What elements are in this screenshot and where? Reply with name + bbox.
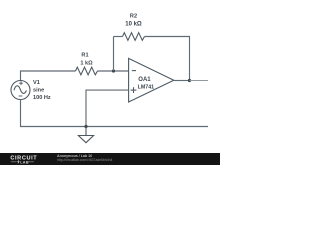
svg-text:http://circuitlab.com/c/637ade: http://circuitlab.com/c/637ade6bh4h4 <box>57 158 113 162</box>
svg-text:OA1: OA1 <box>138 77 151 83</box>
svg-text:R1: R1 <box>81 53 88 59</box>
wire: R2 right lead to right vertical <box>145 37 190 81</box>
node OUT: output junction <box>188 79 191 82</box>
footer bar <box>0 153 220 165</box>
svg-text:100 Hz: 100 Hz <box>33 95 51 101</box>
svg-text:LM741: LM741 <box>138 84 155 90</box>
wire: output extension to the right <box>190 80 209 82</box>
footer logo LAB <box>11 161 17 163</box>
svg-text:sine: sine <box>33 88 44 94</box>
minus polarity mark <box>19 95 23 97</box>
svg-text:LAB: LAB <box>20 161 29 165</box>
op-amp OA1 <box>129 58 174 102</box>
resistor R2 <box>123 33 145 41</box>
minus input mark <box>132 70 136 72</box>
wire: V1 bottom to ground rail <box>21 100 209 127</box>
ground <box>78 127 93 143</box>
wire: non-inverting input to ground drop <box>86 90 129 126</box>
voltage source V1 <box>11 81 30 100</box>
resistor R1 <box>76 67 98 75</box>
wire: feedback left vertical up to R2 <box>113 37 115 72</box>
wire: R2 left lead <box>114 36 123 38</box>
svg-text:1 kΩ: 1 kΩ <box>80 61 93 67</box>
wire: op-amp output to junction <box>174 80 190 82</box>
node A: junction of R1, R2, op-amp input <box>112 69 115 72</box>
sine glyph <box>14 86 26 94</box>
svg-text:V1: V1 <box>33 80 40 86</box>
plus input mark <box>131 89 137 91</box>
node GND: junction at ground <box>84 125 87 128</box>
svg-text:10 kΩ: 10 kΩ <box>125 22 142 28</box>
plus polarity mark <box>19 82 23 84</box>
wire: V1 top stub and horizontal run to R1 <box>21 71 76 81</box>
wire: R1 right to op-amp inverting input <box>98 70 129 72</box>
svg-text:R2: R2 <box>130 14 137 20</box>
